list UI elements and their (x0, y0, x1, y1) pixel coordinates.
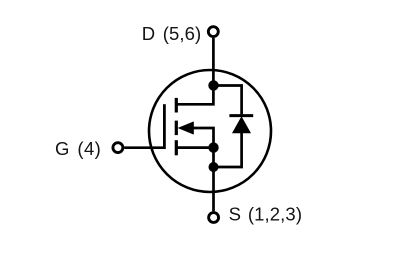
MOSFET body circle U1 (149, 70, 271, 192)
junction node drain/diode (208, 80, 218, 90)
wire gate: terminal G right to gate electrode (124, 146, 164, 149)
body arrow into channel (178, 121, 194, 134)
channel segment body (middle) (175, 121, 178, 136)
body diode D1 triangle (232, 116, 251, 133)
channel segment drain (top) (175, 98, 178, 113)
wire source main vertical down to terminal S (212, 148, 215, 212)
terminal pin G (113, 143, 123, 153)
svg-text:D (5,6): D (5,6) (142, 23, 201, 44)
wire diode top branch (213, 86, 241, 115)
wire diode bottom branch (214, 133, 242, 167)
junction node diode anode (209, 162, 219, 172)
svg-text:G (4): G (4) (55, 138, 101, 159)
channel segment source (bottom) (175, 140, 178, 155)
svg-text:S (1,2,3): S (1,2,3) (229, 203, 303, 224)
junction node source stub (208, 142, 218, 152)
wire body: arrow right then down to source node (193, 128, 214, 148)
body diode D1 cathode bar (229, 114, 253, 117)
gate electrode vertical bar (163, 104, 166, 149)
terminal pin S (209, 213, 219, 223)
wire drain: terminal D down, then left to channel (176, 38, 213, 104)
wire source stub: channel to node (176, 146, 213, 149)
terminal pin D (208, 27, 218, 37)
